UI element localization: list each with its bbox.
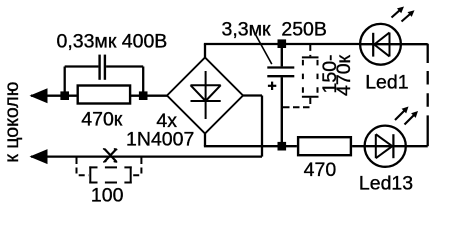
Led1 cathode bar <box>372 33 374 57</box>
resistor R4 100 (optional, dashed) <box>89 166 131 183</box>
LED Led1 <box>360 24 401 65</box>
resistor R3 470 <box>298 137 351 155</box>
node D (junction J4) <box>278 142 287 151</box>
node B (junction J2) <box>139 91 148 100</box>
wire: J2 riser to C1 <box>142 67 144 96</box>
node C (junction J3) <box>278 39 287 48</box>
svg-text:470: 470 <box>304 159 337 181</box>
Led13 emission arrows <box>395 107 418 125</box>
capacitor C1 0,33мк 400В <box>65 55 144 80</box>
bridge rectifier U1 (4x 1N4007) diamond <box>167 58 243 134</box>
svg-text:100: 100 <box>91 185 124 207</box>
svg-text:3,3мк 250В: 3,3мк 250В <box>221 19 326 41</box>
capacitor C2 3,3мк 250В (electrolytic) <box>267 44 294 147</box>
wire: bridge right vertex to AC drop <box>243 94 262 96</box>
wire: top AC wire, arrow to R1 left <box>31 95 78 97</box>
Led13 triangle <box>376 134 393 158</box>
wire: bottom AC wire to input arrow <box>31 155 262 157</box>
wire: dashed lead left to R4 <box>77 168 90 176</box>
resistor R1 470к <box>78 86 130 104</box>
wire: right side vertical (solid-dash-solid, LED string) <box>427 44 429 63</box>
tick right for optional R4 <box>140 157 142 164</box>
tick left for optional R4 <box>76 157 78 164</box>
node A (junction J1) <box>60 91 69 100</box>
svg-text:0,33мк 400В: 0,33мк 400В <box>56 30 167 52</box>
LED Led13 <box>365 126 406 167</box>
wire: bottom DC rail <box>204 145 297 147</box>
wire: dashed link R2 to C2 negative lead <box>283 106 312 108</box>
resistor R2 150-470к (optional, dashed) <box>302 57 319 96</box>
Led1 emission arrows <box>392 7 415 22</box>
wire: J1 riser to C1 <box>64 67 66 96</box>
wire: R2 top lead (dashed) <box>309 45 311 57</box>
wire: bridge bottom lead <box>204 134 206 147</box>
svg-text:470к: 470к <box>81 108 123 130</box>
bridge inner diode symbol <box>191 71 221 119</box>
break mark х on bottom wire <box>104 149 117 162</box>
svg-text:470к: 470к <box>333 54 355 96</box>
input arrow (bottom, к цоколю) <box>30 149 48 164</box>
svg-text:Led13: Led13 <box>359 172 413 194</box>
wire: through Led1 to corner <box>361 43 428 45</box>
svg-text:Led1: Led1 <box>365 72 408 94</box>
wire: AC drop vertical <box>261 96 263 157</box>
Led13 cathode bar <box>392 134 394 158</box>
wire: R3 through Led13 to corner <box>352 145 428 147</box>
wire: R1 right to bridge left vertex <box>130 95 167 97</box>
svg-text:1N4007: 1N4007 <box>126 128 194 150</box>
input arrow (top, к цоколю) <box>30 88 48 103</box>
wire: R2 bottom lead <box>309 98 311 104</box>
svg-text:к цоколю: к цоколю <box>1 82 23 163</box>
polarity + mark <box>268 82 276 90</box>
wire: dashed lead right to R4 <box>132 168 142 176</box>
wire: top DC rail <box>204 43 361 45</box>
leader line from 3,3мк label to C2 <box>255 34 272 64</box>
wire: bridge top lead <box>204 44 206 58</box>
Led1 triangle <box>374 33 389 57</box>
